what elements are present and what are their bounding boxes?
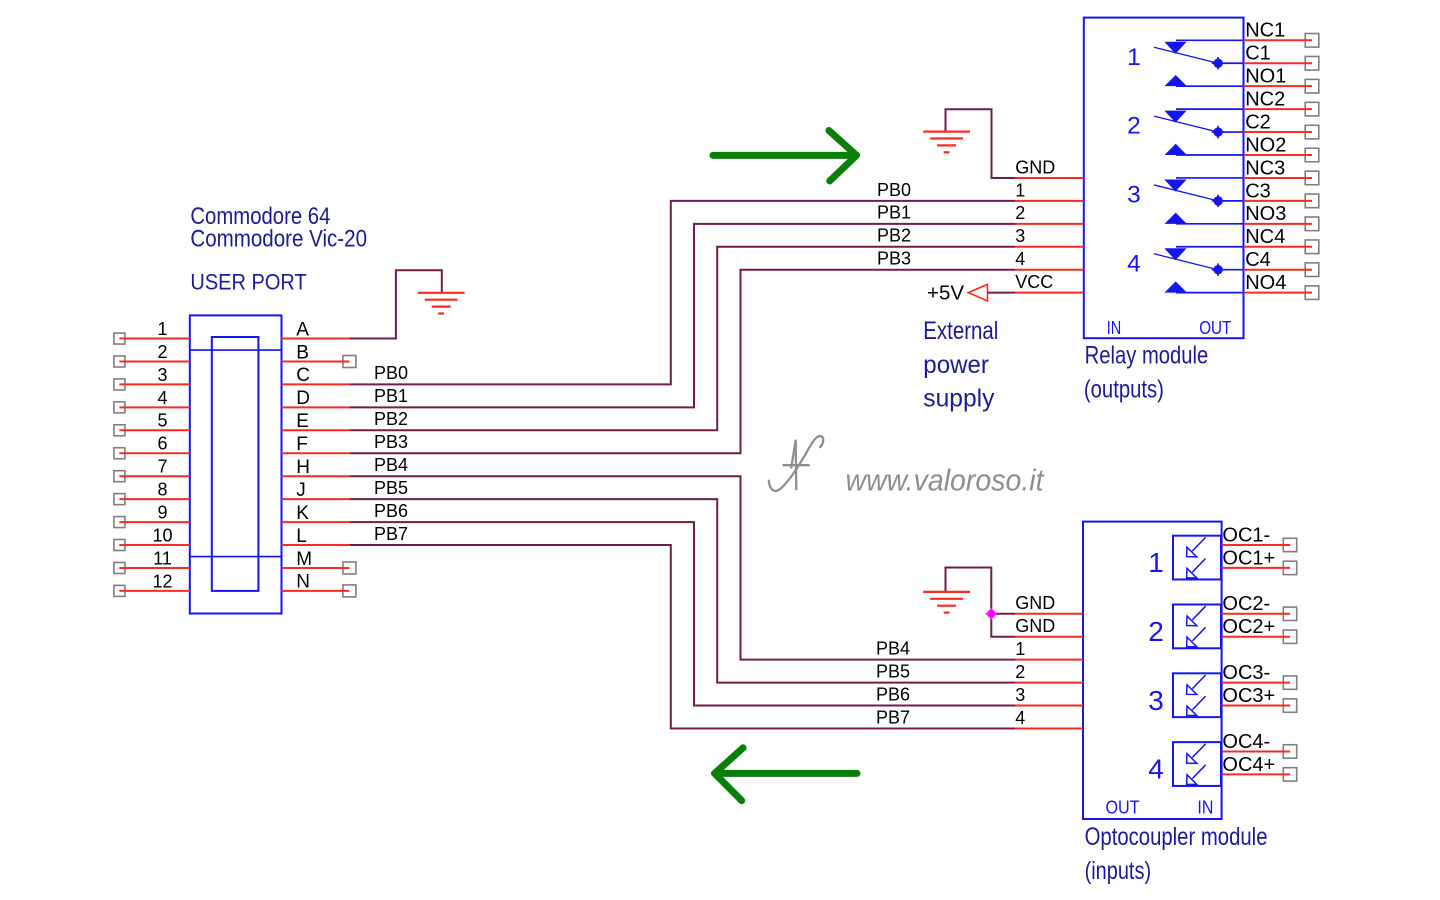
svg-text:NO1: NO1 xyxy=(1245,66,1286,88)
optocoupler 1 light arrow 2 xyxy=(1187,558,1206,578)
svg-text:B: B xyxy=(296,342,309,363)
user port pin B terminal square xyxy=(343,355,356,367)
svg-text:1: 1 xyxy=(1148,547,1164,578)
svg-text:4: 4 xyxy=(1015,249,1025,269)
optocoupler 4 unit box xyxy=(1173,742,1221,786)
optocoupler 2 light arrow 1 xyxy=(1187,606,1206,626)
optocoupler module input pin GND row 2 stub xyxy=(1015,636,1083,638)
svg-text:E: E xyxy=(296,411,309,432)
svg-text:NC3: NC3 xyxy=(1245,157,1285,179)
optocoupler output OC1+ stub xyxy=(1222,567,1290,569)
user port pin 9 terminal square xyxy=(114,517,125,528)
relay 4 NC contact triangle xyxy=(1166,249,1186,260)
svg-text:C: C xyxy=(296,365,310,386)
relay output NO1 stub xyxy=(1244,85,1313,87)
relay output NC4 terminal square xyxy=(1305,240,1319,254)
relay output NC1 terminal square xyxy=(1305,34,1319,48)
optocoupler output OC4- terminal square xyxy=(1283,745,1296,758)
relay output NC2 stub xyxy=(1244,108,1313,110)
user port pin 12 terminal square xyxy=(114,585,125,596)
svg-text:3: 3 xyxy=(1015,226,1025,246)
svg-text:2: 2 xyxy=(1127,113,1141,140)
user port pin K stub xyxy=(282,521,350,523)
relay 4 NO contact triangle xyxy=(1166,282,1186,292)
wire PB4 from user port to optocoupler module pin 1 xyxy=(350,476,1015,659)
svg-text:4: 4 xyxy=(1127,250,1141,277)
wire +5V to VCC pin xyxy=(988,292,1016,294)
optocoupler module input pin 3 row 5 stub xyxy=(1015,705,1083,707)
relay output C1 stub xyxy=(1244,62,1313,64)
svg-text:External: External xyxy=(923,317,998,345)
svg-text:4: 4 xyxy=(1148,754,1164,785)
relay output C2 stub xyxy=(1244,131,1313,133)
ground symbol at relay module xyxy=(923,132,970,153)
optocoupler output OC1+ terminal square xyxy=(1283,561,1296,574)
relay 4 lever xyxy=(1154,254,1218,270)
relay output C3 terminal square xyxy=(1305,194,1319,208)
svg-text:N: N xyxy=(296,572,310,593)
svg-text:PB3: PB3 xyxy=(374,432,408,452)
svg-text:supply: supply xyxy=(923,384,995,412)
relay 4 NC contact line xyxy=(1176,246,1244,248)
junction dot at optocoupler GND xyxy=(986,608,998,620)
svg-text:H: H xyxy=(296,457,310,478)
svg-text:OUT: OUT xyxy=(1106,797,1140,818)
user port pin F stub xyxy=(282,452,350,454)
wire PB2 from user port to relay module pin 3 xyxy=(350,247,1015,431)
relay output NC3 stub xyxy=(1244,177,1313,179)
svg-text:PB0: PB0 xyxy=(374,363,408,383)
user port pin 9 stub xyxy=(119,521,189,523)
svg-text:D: D xyxy=(296,388,310,409)
svg-text:OC2-: OC2- xyxy=(1222,593,1270,615)
optocoupler 3 light arrow 2 xyxy=(1187,696,1206,716)
relay 1 NC contact line xyxy=(1176,39,1244,41)
relay 2 NC contact triangle xyxy=(1166,111,1186,122)
relay module U1 outline xyxy=(1084,18,1244,339)
relay 1 NO contact triangle xyxy=(1166,76,1186,86)
svg-text:(outputs): (outputs) xyxy=(1084,376,1164,404)
svg-text:C3: C3 xyxy=(1245,180,1271,202)
optocoupler output OC3+ stub xyxy=(1222,705,1290,707)
svg-text:PB4: PB4 xyxy=(374,455,408,475)
optocoupler 4 light arrow 2 xyxy=(1187,765,1206,785)
relay 1 common contact dot xyxy=(1212,57,1225,70)
arrow inputs direction (left) xyxy=(715,748,857,801)
relay 1 lever xyxy=(1154,47,1218,63)
svg-text:2: 2 xyxy=(1015,662,1025,682)
svg-text:PB6: PB6 xyxy=(374,501,408,521)
svg-text:11: 11 xyxy=(153,548,172,568)
svg-text:C1: C1 xyxy=(1245,43,1271,65)
relay module input pin 1 stub xyxy=(1015,200,1084,202)
relay output C4 stub xyxy=(1244,269,1313,271)
svg-text:PB2: PB2 xyxy=(374,409,408,429)
svg-text:IN: IN xyxy=(1107,317,1122,338)
relay 4 common contact dot xyxy=(1212,263,1225,276)
user port pin 2 stub xyxy=(119,360,189,362)
user port pin 7 terminal square xyxy=(114,471,125,482)
optocoupler output OC3- terminal square xyxy=(1283,676,1296,689)
ground symbol at optocoupler module xyxy=(923,592,970,613)
relay output NO3 stub xyxy=(1244,223,1313,225)
user port pin 3 stub xyxy=(119,383,189,385)
relay 4 common line xyxy=(1218,269,1244,271)
relay output NC3 terminal square xyxy=(1305,171,1319,185)
relay output NC4 stub xyxy=(1244,246,1313,248)
optocoupler 3 light arrow 1 xyxy=(1187,675,1206,695)
optocoupler output OC1- stub xyxy=(1222,544,1290,546)
svg-text:K: K xyxy=(296,503,309,524)
relay output NO2 terminal square xyxy=(1305,148,1319,162)
wire user port A to ground xyxy=(350,270,442,338)
optocoupler output OC2+ terminal square xyxy=(1283,630,1296,643)
svg-text:J: J xyxy=(296,480,306,501)
svg-text:PB6: PB6 xyxy=(876,684,910,704)
relay 2 NO contact triangle xyxy=(1166,145,1186,155)
svg-text:Relay module: Relay module xyxy=(1085,342,1209,370)
optocoupler output OC4+ stub xyxy=(1222,773,1290,775)
optocoupler output OC4- stub xyxy=(1222,750,1290,752)
optocoupler output OC3- stub xyxy=(1222,682,1290,684)
user port connector J1 body xyxy=(190,315,282,613)
svg-text:1: 1 xyxy=(157,319,167,339)
relay output C2 terminal square xyxy=(1305,125,1319,139)
svg-text:www.valoroso.it: www.valoroso.it xyxy=(846,463,1045,498)
user port pin 4 stub xyxy=(119,406,189,408)
svg-text:2: 2 xyxy=(157,342,167,362)
arrow outputs direction (right) xyxy=(713,131,857,182)
svg-text:4: 4 xyxy=(157,388,167,408)
svg-text:5: 5 xyxy=(157,411,167,431)
svg-text:C2: C2 xyxy=(1245,111,1271,133)
user port pin 8 terminal square xyxy=(114,494,125,505)
user port pin 7 stub xyxy=(119,475,189,477)
optocoupler 1 unit box xyxy=(1173,536,1221,580)
svg-text:NO4: NO4 xyxy=(1245,272,1286,294)
wire branch to optocoupler GND1 pin xyxy=(991,613,1015,615)
relay output NO1 terminal square xyxy=(1305,79,1319,93)
svg-text:10: 10 xyxy=(152,525,172,545)
svg-text:NC2: NC2 xyxy=(1245,89,1285,111)
relay output NO4 terminal square xyxy=(1305,286,1319,300)
relay output C4 terminal square xyxy=(1305,263,1319,277)
optocoupler 4 light arrow 1 xyxy=(1187,744,1206,764)
user port pin M terminal square xyxy=(343,562,356,574)
svg-text:OC4+: OC4+ xyxy=(1222,754,1275,776)
svg-text:1: 1 xyxy=(1015,639,1025,659)
relay 2 NC contact line xyxy=(1176,108,1244,110)
wire PB1 from user port to relay module pin 2 xyxy=(350,224,1015,408)
svg-text:PB3: PB3 xyxy=(877,249,911,269)
svg-text:GND: GND xyxy=(1015,593,1055,613)
user port pin 6 terminal square xyxy=(114,448,125,459)
relay module input pin GND stub xyxy=(1015,177,1084,179)
wire PB5 from user port to optocoupler module pin 2 xyxy=(350,499,1015,682)
svg-text:OUT: OUT xyxy=(1199,317,1231,338)
wire PB6 from user port to optocoupler module pin 3 xyxy=(350,522,1015,705)
relay 3 NC contact triangle xyxy=(1166,180,1186,191)
optocoupler module input pin 4 row 6 stub xyxy=(1015,728,1083,730)
svg-text:Commodore Vic-20: Commodore Vic-20 xyxy=(190,226,367,253)
user port pin 12 stub xyxy=(119,590,189,592)
svg-text:IN: IN xyxy=(1197,797,1213,818)
relay 3 NO contact triangle xyxy=(1166,213,1186,223)
optocoupler 3 unit box xyxy=(1173,673,1221,717)
svg-text:PB2: PB2 xyxy=(877,226,911,246)
optocoupler output OC2- terminal square xyxy=(1283,607,1296,620)
optocoupler output OC1- terminal square xyxy=(1283,538,1296,551)
user port pin E stub xyxy=(282,429,350,431)
relay 3 NO contact line xyxy=(1176,223,1244,225)
svg-text:OC4-: OC4- xyxy=(1222,731,1270,753)
wire PB7 from user port to optocoupler module pin 4 xyxy=(350,545,1015,728)
relay output C3 stub xyxy=(1244,200,1313,202)
svg-text:8: 8 xyxy=(157,480,167,500)
svg-text:USER PORT: USER PORT xyxy=(190,270,306,295)
svg-text:C4: C4 xyxy=(1245,249,1271,271)
user port connector key notch line lower xyxy=(190,556,282,558)
optocoupler 1 light arrow 1 xyxy=(1187,537,1206,557)
user port pin 10 stub xyxy=(119,544,189,546)
svg-text:2: 2 xyxy=(1015,203,1025,223)
svg-text:PB5: PB5 xyxy=(374,478,408,498)
svg-text:4: 4 xyxy=(1015,708,1025,728)
user port pin 1 terminal square xyxy=(114,333,125,344)
optocoupler module U2 outline xyxy=(1083,522,1222,819)
svg-text:+5V: +5V xyxy=(927,282,964,305)
wire ground to optocoupler module GND pins xyxy=(946,568,1016,637)
svg-text:VCC: VCC xyxy=(1015,272,1053,292)
relay 3 lever xyxy=(1154,185,1218,201)
relay output NC1 stub xyxy=(1244,39,1313,41)
user port pin 5 terminal square xyxy=(114,425,125,436)
optocoupler 2 unit box xyxy=(1173,605,1221,649)
svg-text:GND: GND xyxy=(1015,616,1055,636)
relay output NO4 stub xyxy=(1244,292,1313,294)
user port pin 5 stub xyxy=(119,429,189,431)
svg-text:L: L xyxy=(296,526,307,547)
svg-text:F: F xyxy=(296,434,308,455)
relay 1 NO contact line xyxy=(1176,85,1244,87)
wire PB3 from user port to relay module pin 4 xyxy=(350,270,1015,454)
user port connector J1 edge slot xyxy=(212,337,259,591)
svg-text:NC4: NC4 xyxy=(1245,226,1285,248)
relay output NO3 terminal square xyxy=(1305,217,1319,231)
svg-text:OC2+: OC2+ xyxy=(1222,616,1275,638)
relay 1 NC contact triangle xyxy=(1166,42,1186,53)
svg-text:OC1-: OC1- xyxy=(1222,524,1270,546)
svg-text:3: 3 xyxy=(157,365,167,385)
user port pin 8 stub xyxy=(119,498,189,500)
svg-text:3: 3 xyxy=(1015,685,1025,705)
svg-text:(inputs): (inputs) xyxy=(1085,857,1152,885)
user port pin 11 terminal square xyxy=(114,562,125,573)
user port pin L stub xyxy=(282,544,350,546)
user port pin C stub xyxy=(282,383,350,385)
svg-text:PB7: PB7 xyxy=(374,524,408,544)
svg-text:OC1+: OC1+ xyxy=(1222,547,1275,569)
svg-text:1: 1 xyxy=(1127,44,1141,71)
relay 1 common line xyxy=(1218,62,1244,64)
svg-text:3: 3 xyxy=(1127,181,1141,208)
svg-text:M: M xyxy=(296,549,312,570)
svg-text:7: 7 xyxy=(157,457,167,477)
user port pin 11 stub xyxy=(119,567,189,569)
relay output C1 terminal square xyxy=(1305,56,1319,70)
optocoupler output OC2- stub xyxy=(1222,613,1290,615)
optocoupler output OC2+ stub xyxy=(1222,636,1290,638)
svg-text:Optocoupler module: Optocoupler module xyxy=(1085,823,1268,851)
relay 2 common line xyxy=(1218,131,1244,133)
svg-text:PB1: PB1 xyxy=(374,386,408,406)
user port pin H stub xyxy=(282,475,350,477)
wire PB0 from user port to relay module pin 1 xyxy=(350,201,1015,385)
optocoupler 2 light arrow 2 xyxy=(1187,627,1206,647)
+5V source arrow symbol xyxy=(968,284,987,301)
user port pin 3 terminal square xyxy=(114,379,125,390)
user port pin A stub xyxy=(282,338,350,340)
user port pin N terminal square xyxy=(343,585,356,597)
relay output NO2 stub xyxy=(1244,154,1313,156)
watermark Af logo xyxy=(769,436,823,491)
optocoupler output OC4+ terminal square xyxy=(1283,768,1296,781)
svg-text:3: 3 xyxy=(1148,685,1164,716)
user port pin 10 terminal square xyxy=(114,540,125,551)
relay 3 common contact dot xyxy=(1212,195,1225,208)
relay 2 lever xyxy=(1154,116,1218,132)
svg-text:PB0: PB0 xyxy=(877,180,911,200)
user port pin 2 terminal square xyxy=(114,356,125,367)
svg-text:OC3+: OC3+ xyxy=(1222,685,1275,707)
ground symbol at user port xyxy=(418,293,465,314)
svg-text:PB1: PB1 xyxy=(877,203,911,223)
svg-text:PB5: PB5 xyxy=(876,662,910,682)
relay 3 NC contact line xyxy=(1176,177,1244,179)
user port pin D stub xyxy=(282,406,350,408)
relay 2 NO contact line xyxy=(1176,154,1244,156)
relay module input pin 4 stub xyxy=(1015,269,1084,271)
user port pin 1 stub xyxy=(119,338,189,340)
relay 2 common contact dot xyxy=(1212,126,1225,139)
svg-text:1: 1 xyxy=(1015,180,1025,200)
relay module input pin 2 stub xyxy=(1015,223,1084,225)
relay output NC2 terminal square xyxy=(1305,102,1319,116)
optocoupler output OC3+ terminal square xyxy=(1283,699,1296,712)
svg-text:6: 6 xyxy=(157,434,167,454)
relay 3 common line xyxy=(1218,200,1244,202)
wire ground to relay module GND pin xyxy=(946,109,1016,178)
user port connector key notch line upper xyxy=(190,349,282,351)
svg-text:PB4: PB4 xyxy=(876,639,910,659)
svg-text:GND: GND xyxy=(1015,157,1055,177)
optocoupler module input pin 1 row 3 stub xyxy=(1015,659,1083,661)
svg-text:power: power xyxy=(923,351,989,379)
svg-text:12: 12 xyxy=(152,571,172,591)
relay module input pin VCC stub xyxy=(1015,292,1084,294)
user port pin 4 terminal square xyxy=(114,402,125,413)
svg-text:NC1: NC1 xyxy=(1245,20,1285,42)
svg-text:OC3-: OC3- xyxy=(1222,662,1270,684)
svg-text:NO2: NO2 xyxy=(1245,134,1286,156)
svg-text:PB7: PB7 xyxy=(876,707,910,727)
svg-text:A: A xyxy=(296,319,309,340)
relay module input pin 3 stub xyxy=(1015,246,1084,248)
svg-text:9: 9 xyxy=(157,502,167,522)
svg-text:NO3: NO3 xyxy=(1245,203,1286,225)
svg-text:2: 2 xyxy=(1148,616,1164,647)
optocoupler module input pin GND row 1 stub xyxy=(1015,613,1083,615)
user port pin J stub xyxy=(282,498,350,500)
relay 4 NO contact line xyxy=(1176,292,1244,294)
user port pin 6 stub xyxy=(119,452,189,454)
optocoupler module input pin 2 row 4 stub xyxy=(1015,682,1083,684)
